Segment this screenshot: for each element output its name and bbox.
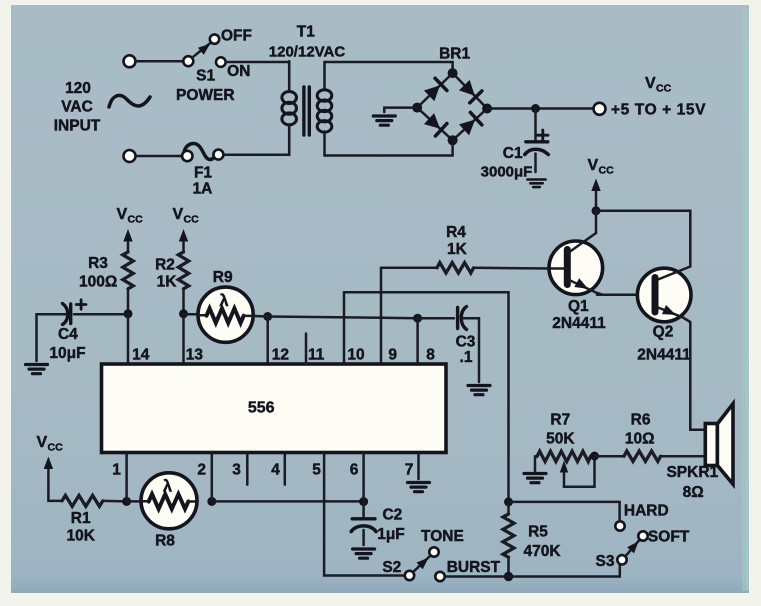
Vcc arrow (Q1 Q2) bbox=[595, 188, 598, 208]
svg-text:2N4411: 2N4411 bbox=[637, 347, 691, 364]
wire: S1 ON to transformer primary bbox=[226, 62, 290, 91]
svg-text:13: 13 bbox=[186, 347, 204, 364]
wire: pin9 up bbox=[380, 268, 383, 363]
transistor Q2 bbox=[637, 267, 691, 323]
wire: R5 bottom junction to S3 pole bbox=[509, 565, 620, 577]
wire: bottom terminal to fuse F1 bbox=[136, 155, 182, 158]
capacitor C2 bbox=[362, 502, 365, 517]
svg-text:10: 10 bbox=[347, 347, 364, 364]
node pin8 junction bbox=[413, 314, 422, 323]
svg-text:V: V bbox=[588, 157, 599, 174]
resistor R5 bbox=[507, 502, 510, 514]
switch S3 HARD contact bbox=[615, 521, 624, 530]
svg-text:CC: CC bbox=[599, 165, 615, 177]
svg-text:Q1: Q1 bbox=[568, 298, 589, 315]
wire: R4 to Q1 base bbox=[474, 267, 551, 270]
fuse F1 bbox=[184, 143, 218, 159]
Vcc arrow (R1) bbox=[48, 466, 62, 501]
svg-text:C4: C4 bbox=[58, 326, 78, 343]
svg-text:8: 8 bbox=[426, 347, 435, 364]
resistor R2 bbox=[178, 252, 188, 289]
wire: R6 to speaker bbox=[661, 455, 705, 458]
svg-text:V: V bbox=[645, 75, 656, 92]
svg-text:5: 5 bbox=[312, 462, 321, 479]
node pin13 junction bbox=[179, 309, 188, 318]
diode D1 top-left bbox=[423, 78, 447, 102]
AC sine symbol bbox=[109, 95, 150, 107]
wire: secondary top to bridge bbox=[325, 62, 453, 68]
label Vcc (R3) bbox=[117, 206, 144, 226]
svg-text:T1: T1 bbox=[297, 24, 315, 41]
wire: pin1 junction to R8 bbox=[127, 500, 142, 503]
svg-text:11: 11 bbox=[308, 347, 325, 364]
svg-text:1K: 1K bbox=[157, 274, 178, 291]
wire: Vcc junction to Q2 collector bbox=[596, 211, 690, 267]
wire: Q2 emitter down to speaker bbox=[690, 323, 705, 430]
wire: C4 to pin14 junction bbox=[74, 313, 124, 316]
svg-text:R1: R1 bbox=[71, 510, 91, 527]
capacitor C4 bbox=[69, 304, 72, 324]
ground (C2) bbox=[353, 549, 375, 558]
svg-text:V: V bbox=[117, 206, 128, 223]
resistor R4 bbox=[437, 263, 474, 273]
svg-text:1A: 1A bbox=[192, 181, 212, 198]
svg-text:556: 556 bbox=[248, 400, 275, 417]
ground (C4) bbox=[26, 365, 48, 374]
speaker SPKR1 bbox=[705, 404, 733, 484]
output terminal bbox=[594, 103, 606, 115]
svg-text:470K: 470K bbox=[523, 543, 561, 560]
diode D4 bottom-right bbox=[458, 112, 482, 136]
svg-text:50K: 50K bbox=[546, 431, 575, 448]
ground (R7) bbox=[524, 474, 546, 483]
label Vcc (Q1 Q2) bbox=[588, 157, 615, 177]
photoresistor R9 bbox=[198, 287, 253, 342]
resistor R3 bbox=[123, 252, 133, 289]
svg-text:R8: R8 bbox=[155, 533, 175, 550]
wire: bridge left vertex to ground bbox=[384, 108, 417, 112]
wire: pin10 up and across bbox=[344, 292, 509, 500]
wire: pin7 to ground bbox=[417, 453, 420, 480]
120 VAC INPUT label bbox=[54, 80, 101, 135]
svg-text:F1: F1 bbox=[194, 165, 212, 182]
switch S2 TONE contact bbox=[429, 547, 438, 556]
plus sign C1 bbox=[538, 130, 548, 140]
svg-text:BR1: BR1 bbox=[439, 46, 470, 63]
pin 4 stub bbox=[284, 453, 287, 485]
svg-text:2: 2 bbox=[197, 462, 206, 479]
wire: Vcc junction to Q1 collector bbox=[595, 211, 598, 233]
svg-text:10Ω: 10Ω bbox=[625, 431, 655, 448]
scan edge tint right bbox=[742, 8, 749, 591]
wire: pin1 bbox=[125, 453, 128, 502]
switch S1 lever with arrow bbox=[192, 43, 211, 58]
svg-text:OFF: OFF bbox=[221, 28, 252, 45]
diode D3 bottom-left bbox=[423, 112, 447, 136]
switch S1 pole bbox=[183, 56, 193, 66]
svg-text:V: V bbox=[173, 206, 184, 223]
svg-text:100Ω: 100Ω bbox=[79, 274, 117, 291]
wire: top terminal to S1 pole bbox=[136, 60, 184, 63]
node C1 top junction bbox=[531, 104, 540, 113]
switch S3 pole bbox=[617, 555, 626, 564]
svg-text:2N4411: 2N4411 bbox=[552, 315, 606, 332]
wire: pin12 bbox=[266, 317, 269, 364]
node pin2 junction bbox=[207, 497, 216, 506]
wire: R9 to pin12 junction bbox=[253, 315, 268, 318]
svg-text:C3: C3 bbox=[456, 334, 476, 351]
pin 11 stub bbox=[305, 334, 308, 365]
node R7 R6 junction bbox=[590, 452, 599, 461]
svg-text:SOFT: SOFT bbox=[648, 529, 690, 546]
svg-text:CC: CC bbox=[128, 214, 144, 226]
wire: pin13 bbox=[182, 314, 185, 363]
svg-text:4: 4 bbox=[271, 462, 280, 479]
bridge rectifier BR1 bbox=[412, 68, 492, 145]
svg-text:R2: R2 bbox=[155, 257, 175, 274]
svg-text:λ: λ bbox=[163, 478, 172, 496]
switch S2 BURST contact bbox=[435, 572, 444, 581]
wire: pin14 bbox=[127, 314, 130, 363]
svg-text:CC: CC bbox=[656, 83, 672, 95]
node R5 top junction bbox=[504, 497, 513, 506]
svg-text:C2: C2 bbox=[382, 507, 402, 524]
svg-text:HARD: HARD bbox=[624, 503, 669, 520]
svg-text:BURST: BURST bbox=[447, 559, 501, 576]
svg-text:S2: S2 bbox=[382, 559, 401, 576]
svg-text:10K: 10K bbox=[66, 528, 95, 545]
switch S2 lever with arrow bbox=[413, 555, 431, 572]
node pin6 junction bbox=[359, 497, 368, 506]
switch S3 SOFT contact bbox=[638, 531, 647, 540]
capacitor C3 bbox=[456, 308, 459, 329]
diode D2 top-right bbox=[458, 79, 482, 103]
svg-text:R5: R5 bbox=[528, 524, 548, 541]
wire: Q1 emitter to Q2 base bbox=[597, 294, 655, 297]
IC 556 bbox=[102, 364, 447, 453]
node Vcc junction (Q1 Q2) bbox=[592, 206, 601, 215]
wire: pin8 junction to C3 bbox=[418, 317, 454, 320]
photoresistor R8 bbox=[141, 473, 197, 529]
svg-text:3: 3 bbox=[232, 462, 241, 479]
Vcc arrow (R2) bbox=[182, 238, 185, 252]
svg-text:CC: CC bbox=[184, 214, 200, 226]
svg-text:R4: R4 bbox=[446, 224, 466, 241]
svg-text:1μF: 1μF bbox=[377, 526, 405, 543]
wire: pin5 down to S2 bbox=[324, 453, 405, 576]
transformer T1 primary winding bbox=[288, 61, 291, 89]
svg-text:14: 14 bbox=[132, 347, 150, 364]
Vcc arrow (R3) bbox=[127, 238, 130, 252]
input terminal bottom bbox=[124, 150, 136, 162]
transformer T1 secondary winding bbox=[323, 62, 326, 89]
plus sign C4 bbox=[76, 300, 86, 309]
transistor Q1 bbox=[549, 233, 603, 295]
svg-text:ON: ON bbox=[227, 63, 250, 80]
svg-text:C1: C1 bbox=[503, 145, 523, 162]
wire: BURST to R5 bottom junction bbox=[445, 575, 509, 578]
wire: secondary bottom to bridge bbox=[325, 145, 453, 156]
wire: pin8 bbox=[416, 318, 419, 363]
node pin14 junction bbox=[124, 309, 133, 318]
resistor R6 bbox=[624, 451, 661, 461]
svg-text:SPKR1: SPKR1 bbox=[666, 464, 718, 481]
svg-text:R6: R6 bbox=[631, 412, 651, 429]
label Vcc output bbox=[645, 75, 672, 95]
node pin12 junction bbox=[263, 312, 272, 321]
wire: pin6 bbox=[362, 453, 365, 502]
svg-text:120/12VAC: 120/12VAC bbox=[269, 44, 346, 61]
svg-text:R3: R3 bbox=[88, 255, 108, 272]
switch S2 pole bbox=[405, 571, 414, 580]
wire: pin2 junction to pin6 junction bbox=[212, 500, 364, 503]
switch S1 ON contact bbox=[216, 57, 226, 67]
svg-text:12: 12 bbox=[272, 347, 289, 364]
wire: fuse to transformer primary bottom bbox=[224, 126, 290, 155]
svg-text:λ: λ bbox=[219, 292, 228, 310]
label Vcc (R2) bbox=[173, 206, 200, 226]
svg-text:V: V bbox=[37, 434, 48, 451]
wire: R5 top junction to HARD contact bbox=[509, 502, 620, 521]
svg-text:TONE: TONE bbox=[421, 528, 464, 545]
capacitor C1 bbox=[534, 109, 537, 141]
ground (bridge) bbox=[373, 116, 395, 125]
node pin1 junction bbox=[122, 497, 131, 506]
wire: pin2 bbox=[211, 453, 214, 502]
svg-text:1K: 1K bbox=[447, 241, 468, 258]
input terminal top bbox=[124, 55, 136, 67]
svg-text:6: 6 bbox=[350, 462, 359, 479]
R7 wiper arrow bbox=[564, 460, 595, 487]
svg-text:POWER: POWER bbox=[176, 87, 235, 104]
ground (C1) bbox=[527, 180, 545, 188]
svg-text:3000μF: 3000μF bbox=[481, 164, 533, 181]
wire: junction to R6 bbox=[595, 455, 625, 458]
svg-text:Q2: Q2 bbox=[653, 324, 674, 341]
svg-text:INPUT: INPUT bbox=[54, 118, 101, 135]
wire: ground to R7 bbox=[535, 456, 537, 471]
wire: pin13 junction to R9 bbox=[184, 313, 201, 316]
svg-text:.1: .1 bbox=[460, 349, 473, 366]
svg-text:R9: R9 bbox=[213, 269, 233, 286]
svg-text:R7: R7 bbox=[550, 412, 570, 429]
svg-text:+5 TO + 15V: +5 TO + 15V bbox=[611, 102, 706, 119]
svg-text:9: 9 bbox=[388, 347, 397, 364]
ground (pin7) bbox=[408, 483, 430, 492]
wire: pin9 to R4 bbox=[381, 267, 437, 270]
wire: bridge right to output terminal bbox=[487, 107, 593, 110]
svg-text:120: 120 bbox=[65, 80, 91, 97]
ground (C3) bbox=[468, 386, 490, 395]
switch S1 OFF contact bbox=[210, 34, 219, 43]
pin 3 stub bbox=[246, 453, 249, 485]
svg-text:S1: S1 bbox=[196, 68, 215, 85]
svg-text:1: 1 bbox=[112, 462, 121, 479]
node R5 bottom junction bbox=[504, 572, 513, 581]
svg-text:VAC: VAC bbox=[61, 99, 93, 116]
resistor R1 bbox=[62, 495, 103, 506]
switch S3 lever with arrow bbox=[625, 540, 640, 557]
label Vcc (R1) bbox=[37, 434, 64, 454]
svg-text:CC: CC bbox=[48, 442, 64, 454]
svg-text:10μF: 10μF bbox=[49, 345, 85, 362]
transformer T1 core bbox=[304, 87, 309, 135]
wire: pin12 junction to pin8 junction bbox=[268, 317, 418, 319]
potentiometer R7 bbox=[537, 451, 591, 461]
svg-text:7: 7 bbox=[405, 462, 414, 479]
svg-text:S3: S3 bbox=[596, 553, 615, 570]
svg-text:8Ω: 8Ω bbox=[683, 484, 704, 501]
